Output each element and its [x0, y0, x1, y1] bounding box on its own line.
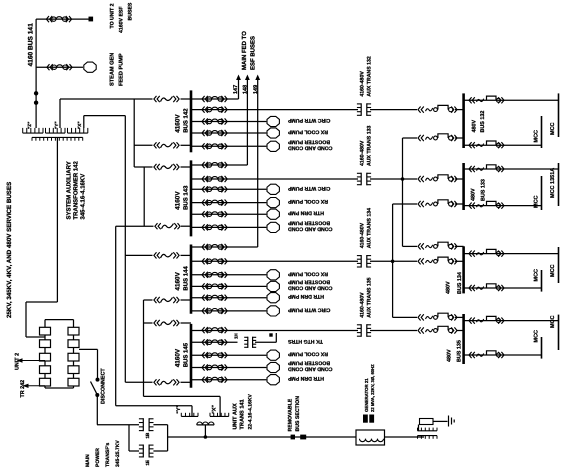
svg-text:AUX TRANS 132: AUX TRANS 132: [367, 56, 373, 96]
wire bus145 motor feeder 3: [191, 379, 266, 381]
wire bus142 incoming 1: [181, 98, 192, 100]
wire trans132 to bus132: [370, 109, 417, 111]
svg-text:COND AND COND: COND AND COND: [288, 366, 333, 372]
svg-text:MCC: MCC: [550, 315, 556, 328]
transformer TK HTG TRANS: [244, 337, 256, 348]
ground symbol: [449, 416, 455, 427]
label TR 242: [20, 380, 26, 398]
wire bus133 incoming 2 tail: [455, 203, 464, 205]
wire bus142 motor feeder 2: [191, 132, 266, 134]
svg-text:345-25.7KV: 345-25.7KV: [115, 440, 121, 467]
motor bus145 RX COOL PUMP: [267, 350, 279, 360]
bus 4160V BUS 145: [190, 324, 193, 388]
label MCC bottom BUS 134: [534, 269, 540, 282]
breaker MCC top BUS 132: [469, 96, 504, 103]
wire feeder 149: [191, 80, 258, 247]
motor bus143 CIRC WTR PUMP: [267, 184, 279, 194]
label 4160-480V AUX TRANS 135: [360, 277, 373, 317]
svg-text:ESF BUSES: ESF BUSES: [250, 36, 257, 70]
svg-text:AUX TRANS 134: AUX TRANS 134: [367, 208, 373, 248]
svg-text:BUS 144: BUS 144: [183, 266, 190, 291]
disconnect switch: [91, 378, 100, 425]
breaker tk htg feeder: [202, 339, 227, 345]
motor bus145 COND AND COND: [267, 362, 279, 372]
arrow feeder 147: [236, 75, 241, 81]
wire bus143 incoming 2: [116, 225, 191, 227]
motor bus143 COND AND COND: [267, 222, 279, 232]
breaker MCC bottom BUS 133: [469, 201, 504, 208]
breaker bus132 incoming 2: [418, 134, 457, 141]
wire UAT X riser: [143, 300, 145, 396]
transformer T142 secondary winding Z: [23, 128, 43, 133]
wire bus142 incoming 2: [134, 144, 191, 146]
svg-text:480V: 480V: [446, 281, 452, 294]
breaker bus142 incoming 1: [154, 96, 179, 102]
label 4160 BUS 141: [27, 23, 34, 67]
transformer T142 secondary winding X: [68, 128, 88, 133]
svg-text:MCC: MCC: [534, 269, 540, 282]
breaker MCC top BUS 134: [469, 249, 504, 256]
wire T142 primary lead: [26, 137, 57, 337]
wire bus145 incoming 2: [125, 381, 191, 383]
wire T142 Y lead: [60, 99, 153, 128]
svg-text:480V: 480V: [471, 188, 477, 201]
label REMOVABLE BUS SECTION: [288, 396, 302, 432]
svg-text:1B: 1B: [145, 432, 150, 439]
label 1E: [145, 460, 150, 466]
svg-text:BUS SECTION: BUS SECTION: [295, 396, 301, 432]
bus MCC bar top BUS 135: [558, 315, 560, 350]
breaker bus133 incoming 2: [418, 200, 457, 207]
svg-text:STEAM GEN: STEAM GEN: [110, 53, 116, 86]
svg-text:TRANS 141: TRANS 141: [240, 399, 246, 429]
svg-text:4160V ESF: 4160V ESF: [119, 6, 125, 33]
svg-text:BUS 142: BUS 142: [183, 108, 190, 133]
wire feeder to aux trans 132: [191, 109, 358, 111]
svg-text:COND AND COND: COND AND COND: [288, 145, 333, 151]
breaker bus133 incoming 1: [418, 175, 457, 182]
label 4160V BUS 145: [175, 342, 190, 367]
wire bus142 motor feeder 3: [191, 145, 266, 147]
label COND AND COND BOOSTER PUMP: [287, 139, 332, 151]
label COND AND COND BOOSTER PUMP: [287, 220, 332, 232]
wire bus143 motor feeder 1: [191, 188, 266, 190]
label RX COOL PUMP: [287, 198, 328, 204]
breaker MCC bottom BUS 134: [469, 284, 504, 291]
bus 4160V BUS 142: [190, 90, 193, 152]
svg-text:BOOSTER PUMP: BOOSTER PUMP: [287, 139, 330, 145]
label 148: [243, 85, 249, 94]
breaker MCC top BUS 133: [469, 165, 504, 172]
label 480V BUS 134: [446, 272, 464, 294]
svg-text:RX COOL PUMP: RX COOL PUMP: [287, 198, 328, 204]
wire bus 141 riser: [35, 19, 37, 128]
transformer main 1E: [139, 445, 154, 458]
wire to unit 2 tie: [36, 18, 88, 20]
wire UAT Y riser: [115, 226, 117, 406]
bus 4160V BUS 144: [190, 245, 193, 314]
svg-text:GENERATOR 21: GENERATOR 21: [364, 378, 369, 412]
transformer UAT secondary Y: [181, 413, 198, 417]
breaker bus134 incoming 1: [418, 242, 457, 249]
wire bus143 motor feeder 2: [191, 202, 266, 204]
breaker bus143 motor feeder 4: [202, 224, 227, 230]
disconnect links TR 242 ladder: [40, 320, 80, 388]
wire MCC feeder bottom BUS 132: [464, 144, 542, 146]
label 149: [253, 85, 259, 94]
bus 480V BUS 132: [462, 93, 465, 148]
svg-text:BOOSTER PUMP: BOOSTER PUMP: [287, 220, 330, 226]
wire MCC feeder top BUS 132: [464, 99, 559, 101]
label 1B: [145, 432, 150, 439]
breaker tie to unit 2: [46, 16, 71, 22]
breaker feeder 147: [202, 96, 227, 102]
wire bus144 motor feeder 3: [191, 297, 266, 299]
svg-text:BUS 134: BUS 134: [457, 272, 463, 294]
svg-text:DISCONNECT: DISCONNECT: [101, 368, 107, 404]
svg-text:4160-480V: 4160-480V: [360, 71, 366, 97]
svg-text:“Y”: “Y”: [54, 121, 59, 129]
wire UAT Y lead: [116, 406, 192, 417]
node riser B junction: [391, 260, 395, 264]
svg-text:MCC 1351A: MCC 1351A: [550, 168, 556, 198]
label MCC top BUS 135: [550, 315, 556, 328]
label 4160-480V AUX TRANS 132: [360, 56, 373, 96]
label UAT winding Y: [176, 405, 182, 414]
svg-text:BUS 133: BUS 133: [481, 179, 487, 201]
grounding transformer and resistor: [418, 419, 448, 439]
svg-text:BUS 135: BUS 135: [456, 340, 462, 362]
breaker bus144 motor feeder 1: [202, 272, 227, 278]
motor steam gen feed pump: [66, 62, 96, 72]
svg-text:CIRC WTR PUMP: CIRC WTR PUMP: [287, 185, 330, 191]
wire feeder 148: [191, 80, 247, 165]
wire bus132 incoming 1 tail: [455, 109, 464, 111]
svg-text:480V: 480V: [472, 120, 478, 133]
transformer UAT secondary X: [210, 413, 229, 417]
svg-text:“X”: “X”: [77, 121, 82, 129]
breaker bus132 incoming 1: [418, 105, 457, 112]
arrow tr 242: [23, 384, 46, 388]
bus 480V BUS 135: [462, 314, 465, 364]
svg-text:4160V: 4160V: [175, 348, 182, 367]
label winding Y: [54, 121, 59, 129]
svg-text:CIRC WTR PUMP: CIRC WTR PUMP: [287, 306, 330, 312]
wire MCC feeder bottom BUS 134: [464, 287, 542, 289]
svg-text:POWER: POWER: [95, 448, 101, 467]
breaker aux trans 133 feeder: [202, 176, 227, 182]
svg-text:480V: 480V: [446, 349, 452, 362]
svg-text:4160V: 4160V: [175, 114, 182, 133]
legend generator black squares: [363, 415, 374, 423]
label MAIN POWER TRANSF's 345-25.7KV: [85, 440, 121, 467]
svg-text:TRANSF's: TRANSF's: [105, 443, 111, 467]
label UAT winding X: [212, 405, 218, 414]
svg-text:BUS 132: BUS 132: [480, 111, 486, 133]
arrow unit 2: [17, 358, 46, 362]
bus 480V BUS 133: [462, 163, 465, 210]
breaker bus144 motor feeder 4: [202, 308, 227, 314]
breaker bus145 incoming 1: [154, 320, 179, 326]
breaker bus144 motor feeder 2: [202, 283, 227, 289]
breaker feeder 148: [202, 162, 227, 168]
label 1H: [234, 333, 239, 339]
node junction dots on bus 141: [34, 91, 38, 105]
wire bus134 incoming 1 tail: [455, 245, 464, 247]
svg-text:COND AND COND: COND AND COND: [288, 226, 333, 232]
svg-text:BUS 143: BUS 143: [183, 185, 190, 210]
transformer main 1B: [139, 418, 154, 431]
wire UAT X lead: [144, 396, 221, 416]
breaker bus145 incoming 2: [154, 379, 179, 385]
svg-text:BUSES: BUSES: [128, 2, 134, 20]
node removable link 1: [291, 435, 295, 440]
label COND AND COND BOOSTER PUMP: [287, 360, 332, 372]
wire riser transfeed B: [393, 204, 417, 317]
arrow feeder 148: [245, 75, 250, 81]
breaker MCC bottom BUS 132: [469, 141, 504, 148]
wire bus134 incoming 2 tail: [455, 260, 464, 262]
svg-text:4160-480V: 4160-480V: [360, 222, 366, 248]
label HTR DRN PMP: [287, 375, 324, 381]
breaker aux trans 134 feeder: [202, 258, 227, 264]
svg-text:RX COOL PUMP: RX COOL PUMP: [287, 351, 328, 357]
svg-text:345-4.16-4.16KV: 345-4.16-4.16KV: [80, 174, 87, 220]
wire feeder to aux trans 135: [191, 330, 358, 332]
breaker MCC top BUS 135: [469, 316, 504, 323]
svg-text:22 MVA, 22KV, 3Ø, 60HZ: 22 MVA, 22KV, 3Ø, 60HZ: [370, 364, 375, 412]
svg-text:MAIN FED TO: MAIN FED TO: [241, 31, 248, 70]
wire generator to grounding: [385, 436, 425, 438]
svg-text:1E: 1E: [145, 460, 150, 466]
svg-text:“X”: “X”: [212, 405, 218, 414]
breaker bus143 motor feeder 3: [202, 211, 227, 217]
motor bus143 RX COOL PUMP: [267, 198, 279, 208]
svg-text:25KV, 345KV, 4KV, AND 480V SER: 25KV, 345KV, 4KV, AND 480V SERVICE BUSES: [6, 182, 13, 318]
svg-text:BOOSTER PUMP: BOOSTER PUMP: [287, 279, 330, 285]
label 4160V BUS 144: [175, 266, 190, 291]
node removable link 2: [300, 435, 306, 440]
label CIRC WTR PUMP: [287, 117, 330, 123]
wire Y-net vertical 2: [143, 167, 145, 226]
transformer T142 secondary winding Y: [46, 128, 66, 133]
label DISCONNECT: [101, 368, 107, 404]
wire tk htg tail: [255, 333, 276, 342]
svg-text:“Y”: “Y”: [176, 405, 182, 414]
generator winding box: [356, 430, 385, 445]
label RX COOL PUMP: [287, 129, 328, 135]
wire ladder to disconnect: [79, 349, 98, 378]
transformer UAT primary winding: [197, 422, 214, 425]
breaker bus143 incoming 2: [155, 223, 180, 229]
breaker bus142 motor feeder 3: [202, 143, 227, 149]
motor bus142 RX COOL PUMP: [267, 128, 279, 138]
svg-text:FEED PUMP: FEED PUMP: [119, 53, 125, 86]
svg-text:BOOSTER PUMP: BOOSTER PUMP: [287, 360, 330, 366]
wire trans134 to bus134: [370, 260, 417, 262]
label CIRC WTR PUMP: [287, 306, 330, 312]
breaker bus142 incoming 2: [154, 142, 179, 148]
transformer AUX TRANS 135: [357, 324, 371, 337]
label UNIT AUX TRANS 141: [232, 394, 253, 430]
svg-text:4160V: 4160V: [175, 271, 182, 290]
wire feeder to aux trans 133: [191, 178, 358, 180]
breaker bus144 motor feeder 3: [202, 295, 227, 301]
node riser A junction: [401, 177, 405, 181]
label 480V BUS 135: [446, 340, 462, 362]
wire trans135 to bus135: [370, 330, 417, 332]
label SYSTEM AUXILIARY TRANSFORMER 142: [66, 160, 87, 219]
breaker bus134 incoming 2: [418, 257, 457, 264]
label STEAM GEN FEED PUMP: [110, 53, 125, 86]
breaker bus145 motor feeder 1: [202, 352, 227, 358]
bus 480V BUS 134: [462, 246, 465, 293]
transformer AUX TRANS 133: [357, 173, 371, 186]
wire feeder to aux trans 134: [191, 260, 358, 262]
svg-text:TRANSFORMER 142: TRANSFORMER 142: [73, 160, 80, 219]
svg-text:TK HTG HTRS: TK HTG HTRS: [287, 338, 322, 344]
wire bus144 motor feeder 1: [191, 274, 266, 276]
breaker steam gen feed pump: [47, 64, 72, 70]
wire trans133 to bus133: [370, 178, 417, 180]
breaker bus143 motor feeder 1: [202, 186, 227, 192]
svg-text:HTR DRN PMP: HTR DRN PMP: [287, 210, 324, 216]
motor bus145 HTR DRN PMP: [267, 375, 279, 385]
svg-text:1H: 1H: [234, 333, 239, 339]
label 4160-480V AUX TRANS 134: [360, 208, 373, 248]
wire feeder 147: [191, 80, 239, 99]
svg-text:UNIT AUX: UNIT AUX: [232, 403, 238, 429]
wire bus135 incoming 1 tail: [455, 316, 464, 318]
label TO UNIT 2 4160V ESF BUSES: [110, 2, 134, 33]
label TK HTG HTRS: [287, 338, 322, 344]
svg-text:4160-480V: 4160-480V: [360, 140, 366, 166]
wire bus144 incoming 1: [125, 254, 191, 256]
label 4160-480V AUX TRANS 133: [360, 126, 373, 166]
bus MCC bar bottom BUS 135: [541, 337, 543, 359]
wire bus132 incoming 2 tail: [455, 137, 464, 139]
label MCC bottom BUS 133: [534, 195, 540, 208]
bus MCC bar bottom BUS 132: [541, 116, 543, 148]
svg-text:HTR DRN PMP: HTR DRN PMP: [287, 375, 324, 381]
bus MCC bar top BUS 133: [558, 163, 560, 206]
label UNIT 2: [15, 353, 21, 370]
label RX COOL PUMP: [287, 351, 328, 357]
breaker bus144 incoming 1: [154, 252, 179, 258]
wire MCC feeder bottom BUS 133: [464, 205, 542, 207]
wire bus145 motor feeder 1: [191, 354, 266, 356]
svg-text:MCC: MCC: [550, 264, 556, 277]
motor bus144 RX COOL PUMP: [267, 270, 279, 280]
svg-text:MCC: MCC: [534, 195, 540, 208]
label RX COOL PUMP: [287, 270, 328, 276]
transformer AUX TRANS 132: [357, 103, 371, 116]
wire bus145 incoming 1: [144, 322, 192, 324]
label 480V BUS 132: [472, 111, 487, 133]
label 4160V BUS 143: [175, 185, 190, 210]
bus MCC bar bottom BUS 133: [541, 176, 543, 210]
transformer AUX TRANS 134: [357, 255, 371, 268]
svg-text:BUS 145: BUS 145: [183, 342, 190, 367]
breaker bus144 incoming 2: [154, 297, 179, 303]
motor bus144 HTR DRN PMP: [267, 293, 279, 303]
breaker bus143 incoming 1: [154, 164, 179, 170]
wire bus144 motor feeder 2: [191, 285, 266, 287]
svg-text:REMOVABLE: REMOVABLE: [288, 398, 294, 431]
breaker aux trans 135 feeder: [202, 327, 227, 333]
wire bus143 incoming 1: [134, 166, 191, 168]
svg-text:MCC: MCC: [550, 122, 556, 135]
label MCC top BUS 133: [550, 168, 556, 198]
svg-text:AUX TRANS 133: AUX TRANS 133: [367, 126, 373, 166]
svg-text:RX COOL PUMP: RX COOL PUMP: [287, 270, 328, 276]
bus MCC bar top BUS 132: [558, 93, 560, 137]
wire bus142 motor feeder 1: [191, 121, 266, 123]
wire 25kV generator bus: [168, 436, 356, 438]
svg-text:AUX TRANS 135: AUX TRANS 135: [367, 277, 373, 317]
svg-text:MAIN: MAIN: [85, 454, 91, 467]
svg-text:MCC: MCC: [534, 130, 540, 143]
breaker aux trans 132 feeder: [202, 107, 227, 113]
svg-text:TO UNIT 2: TO UNIT 2: [110, 3, 116, 28]
label COND AND COND BOOSTER PUMP: [287, 279, 332, 291]
wire main transformer secondaries: [153, 425, 167, 451]
wire 345kV to main transformers: [97, 425, 139, 451]
wire steam gen feed pump feeder: [36, 66, 66, 68]
label title 25KV 345KV 4KV AND 480V SERVICE BUSES: [6, 182, 13, 318]
svg-text:RX COOL PUMP: RX COOL PUMP: [287, 129, 328, 135]
wire bus133 incoming 1 tail: [455, 178, 464, 180]
label GENERATOR 21: [364, 364, 375, 412]
svg-text:4160V: 4160V: [175, 191, 182, 210]
motor bus142 COND AND COND: [267, 141, 279, 151]
label winding X: [77, 121, 82, 129]
svg-text:HTR DRN PMP: HTR DRN PMP: [287, 293, 324, 299]
wire bus143 motor feeder 3: [191, 213, 266, 215]
svg-text:22-4.16-4.16KV: 22-4.16-4.16KV: [248, 394, 254, 430]
motor bus142 CIRC WTR PUMP: [267, 116, 279, 126]
svg-text:MCC: MCC: [534, 330, 540, 343]
svg-text:COND AND COND: COND AND COND: [288, 285, 333, 291]
label CIRC WTR PUMP: [287, 185, 330, 191]
svg-text:148: 148: [243, 85, 249, 94]
label MCC top BUS 132: [550, 122, 556, 135]
svg-text:CIRC WTR PUMP: CIRC WTR PUMP: [287, 117, 330, 123]
breaker feeder 149: [202, 244, 227, 250]
breaker bus142 motor feeder 2: [202, 130, 227, 136]
bus MCC bar bottom BUS 134: [541, 270, 543, 292]
wire UAT primary lead: [204, 425, 206, 437]
wire bus135 incoming 2 tail: [457, 330, 464, 332]
label MCC bottom BUS 132: [534, 130, 540, 143]
label MCC top BUS 134: [550, 264, 556, 277]
breaker bus143 motor feeder 2: [202, 200, 227, 206]
wire T142 X lead: [84, 116, 126, 128]
wire Y-net vertical: [133, 99, 135, 167]
breaker bus135 incoming 2: [418, 326, 457, 333]
breaker bus142 motor feeder 1: [202, 118, 227, 124]
wire riser transfeed A: [403, 138, 418, 246]
wire bus144 incoming 2: [144, 299, 192, 301]
wire MCC feeder top BUS 135: [464, 320, 559, 322]
label 4160V BUS 142: [175, 108, 190, 133]
node UAT tap junction: [204, 435, 208, 439]
label 480V BUS 133: [471, 179, 487, 201]
wire bus144 motor feeder 4: [191, 310, 266, 312]
svg-text:TR 242: TR 242: [20, 380, 26, 398]
wire bus143 motor feeder 4: [191, 226, 266, 228]
breaker bus145 motor feeder 2: [202, 364, 227, 370]
